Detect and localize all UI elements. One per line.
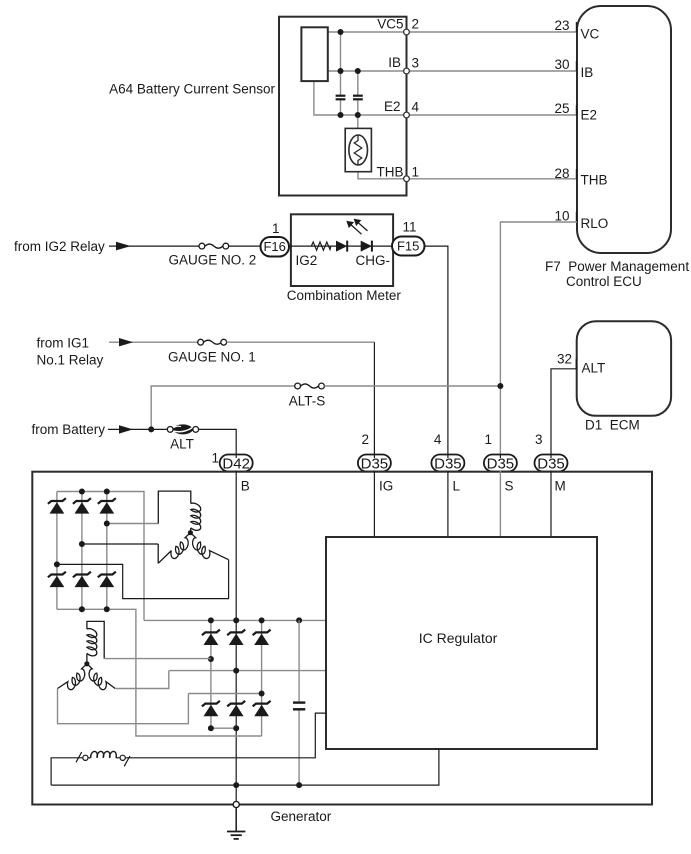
svg-text:VC5: VC5 bbox=[377, 16, 403, 31]
svg-text:GAUGE NO. 2: GAUGE NO. 2 bbox=[169, 253, 257, 268]
wire F15 to generator L terminal bbox=[425, 246, 448, 454]
pin THB (sensor pin 1) bbox=[404, 176, 410, 182]
svg-text:S: S bbox=[505, 479, 514, 494]
svg-text:D1 ECM: D1 ECM bbox=[585, 418, 640, 433]
connector F16 pin 1 bbox=[261, 237, 290, 257]
svg-text:VC: VC bbox=[581, 27, 600, 42]
fuse ALT (fusible link) bbox=[167, 425, 198, 434]
wire ground rail bbox=[51, 749, 439, 785]
pin E2 (sensor pin 4) bbox=[404, 112, 410, 118]
wire fuse GAUGE NO.1 to generator IG terminal bbox=[227, 341, 375, 343]
svg-text:25: 25 bbox=[554, 101, 569, 116]
svg-text:RLO: RLO bbox=[581, 216, 609, 231]
wire rectifier1 column 1 bbox=[56, 492, 58, 610]
wire from IG1 relay to fuse GAUGE NO.1 bbox=[109, 341, 198, 343]
fuse GAUGE NO. 1 bbox=[198, 339, 227, 345]
svg-text:F15: F15 bbox=[397, 239, 419, 254]
svg-text:F7 Power Management: F7 Power Management bbox=[545, 259, 689, 274]
diode D7 bbox=[202, 630, 220, 645]
wire capacitor C2 branch bbox=[357, 71, 359, 95]
diode D10 bbox=[202, 701, 220, 716]
svg-text:Control ECU: Control ECU bbox=[566, 274, 642, 289]
svg-text:IB: IB bbox=[581, 65, 594, 80]
wire L to IC regulator bbox=[447, 471, 449, 538]
wire ECM ALT to generator M terminal bbox=[551, 369, 577, 455]
current sensor element bbox=[301, 27, 327, 81]
wire E2 to ECU pin 25 bbox=[314, 81, 577, 115]
svg-text:IG: IG bbox=[379, 479, 393, 494]
wire phase2 tap col3 bbox=[188, 693, 261, 695]
LED arrows bbox=[347, 220, 367, 235]
svg-text:3: 3 bbox=[535, 432, 543, 447]
svg-text:IC Regulator: IC Regulator bbox=[419, 630, 498, 646]
diode D-meter1 bbox=[336, 241, 347, 252]
diode D4 bbox=[48, 572, 66, 587]
svg-text:1: 1 bbox=[484, 432, 492, 447]
pin 28 THB bbox=[575, 169, 577, 179]
wire L2b to rectifier2 col3 tap bbox=[58, 689, 189, 724]
diode D9 bbox=[253, 630, 271, 645]
wire rectifier2 top rail bbox=[144, 619, 326, 621]
wire B line (terminal B to ground) bbox=[235, 471, 237, 805]
A64 Battery Current Sensor box bbox=[279, 17, 407, 196]
svg-text:3: 3 bbox=[412, 55, 420, 70]
resistor meter bbox=[311, 242, 331, 250]
svg-text:ALT-S: ALT-S bbox=[289, 394, 326, 409]
svg-text:ALT: ALT bbox=[582, 361, 606, 376]
node VC5-C1 junction bbox=[338, 29, 344, 35]
svg-text:B: B bbox=[241, 479, 250, 494]
svg-text:Combination Meter: Combination Meter bbox=[287, 288, 402, 303]
diode D1 bbox=[48, 498, 66, 513]
svg-text:32: 32 bbox=[557, 352, 572, 367]
pin 10 RLO bbox=[575, 212, 577, 222]
diode D6 bbox=[98, 572, 116, 587]
svg-text:THB: THB bbox=[377, 164, 404, 179]
node IB-C1 junction bbox=[338, 68, 344, 74]
svg-text:1: 1 bbox=[412, 164, 420, 179]
node rectifier2 dots bbox=[208, 617, 302, 731]
pin VC5 (sensor pin 2) bbox=[404, 29, 410, 35]
pin 30 IB bbox=[575, 61, 577, 71]
diode D11 bbox=[227, 701, 245, 716]
svg-text:No.1 Relay: No.1 Relay bbox=[37, 353, 104, 368]
wire from battery to fuse ALT bbox=[108, 428, 168, 430]
inductor L2c right coil bbox=[87, 664, 115, 690]
wire rectifier1 column 3 bbox=[106, 492, 108, 610]
svg-text:GAUGE NO. 1: GAUGE NO. 1 bbox=[168, 350, 256, 365]
capacitor C1 bbox=[336, 96, 346, 100]
svg-text:IG2: IG2 bbox=[296, 253, 318, 268]
diode D3 bbox=[98, 498, 116, 513]
node E2-C2 junction bbox=[355, 112, 361, 118]
node E2-C1 junction bbox=[338, 112, 344, 118]
node IB-C2 junction bbox=[355, 68, 361, 74]
node winding2 neutral bbox=[84, 661, 89, 666]
svg-text:from IG1: from IG1 bbox=[37, 336, 90, 351]
svg-text:L: L bbox=[453, 479, 461, 494]
fuse GAUGE NO. 2 bbox=[199, 243, 229, 249]
node winding1 neutral bbox=[188, 530, 193, 535]
wire phase2 tap to regulator P bbox=[169, 670, 326, 672]
wire IB to ECU pin 30 bbox=[328, 70, 577, 72]
wire phase tap W to winding path bbox=[57, 560, 229, 599]
op ECM box D1 bbox=[577, 321, 671, 416]
node ALT-S junction bbox=[497, 383, 503, 389]
svg-text:A64 Battery Current Sensor: A64 Battery Current Sensor bbox=[109, 82, 275, 97]
diode D8 bbox=[227, 630, 245, 645]
thermistor THB element bbox=[345, 128, 371, 171]
wire stubs through connector ovals bbox=[236, 455, 551, 459]
diode D12 bbox=[253, 701, 271, 716]
svg-text:28: 28 bbox=[554, 166, 569, 181]
svg-text:from IG2 Relay: from IG2 Relay bbox=[14, 239, 105, 254]
rotor field winding L3 with brushes bbox=[51, 713, 326, 785]
svg-text:10: 10 bbox=[554, 209, 569, 224]
svg-text:2: 2 bbox=[361, 432, 369, 447]
wire rectifier1 top rail to mid rail bbox=[57, 492, 144, 621]
svg-text:M: M bbox=[555, 479, 566, 494]
wire rectifier1 column 2 bbox=[81, 492, 83, 610]
wire IG to IC regulator bbox=[373, 471, 375, 538]
svg-text:11: 11 bbox=[402, 220, 416, 235]
wire battery junction to fuse ALT-S bbox=[151, 386, 295, 429]
arrow from Battery bbox=[119, 425, 133, 433]
svg-text:THB: THB bbox=[581, 173, 608, 188]
inductor L1a vertical coil bbox=[158, 491, 200, 533]
node rectifier1 dots bbox=[54, 489, 110, 613]
wire fuse ALT-S to S line bbox=[324, 385, 500, 387]
generator box bbox=[32, 472, 652, 805]
wire from IG2 relay to fuse GAUGE NO.2 bbox=[109, 245, 199, 247]
wire inside combination meter bbox=[289, 245, 392, 247]
svg-text:ALT: ALT bbox=[170, 437, 194, 452]
svg-text:F16: F16 bbox=[263, 239, 285, 254]
wire L2a to rectifier2 col1 tap bbox=[104, 658, 211, 660]
capacitor C2 bbox=[353, 96, 363, 100]
pin 32 ALT bbox=[575, 359, 577, 369]
connector F15 pin 11 bbox=[392, 237, 425, 256]
diode D2 bbox=[73, 498, 91, 513]
svg-text:CHG-: CHG- bbox=[356, 253, 391, 268]
node C3-ground rail junction bbox=[296, 782, 302, 788]
node B-ground rail junction bbox=[233, 782, 239, 788]
fuse ALT-S bbox=[295, 383, 325, 389]
svg-text:E2: E2 bbox=[581, 108, 598, 123]
ground symbol bbox=[233, 801, 239, 807]
svg-text:1: 1 bbox=[211, 451, 219, 466]
wire M to IC regulator bbox=[550, 471, 552, 538]
wire rectifier2 bottom rail bbox=[211, 727, 236, 729]
capacitor C3 bbox=[293, 703, 305, 710]
inductor L2b left coil bbox=[58, 664, 87, 690]
node battery/ALT-S junction bbox=[148, 426, 154, 432]
wire rectifier1 bottom rail to diode D9 anode bbox=[57, 609, 262, 736]
svg-text:4: 4 bbox=[412, 99, 420, 114]
op ECU box U-F7 bbox=[577, 6, 671, 253]
wire fuse ALT to generator B terminal bbox=[199, 429, 237, 454]
pin IB (sensor pin 3) bbox=[404, 68, 410, 74]
svg-text:Generator: Generator bbox=[271, 809, 332, 824]
wire capacitor C1 branch bbox=[340, 32, 342, 95]
op IC Regulator box bbox=[326, 537, 597, 749]
svg-text:1: 1 bbox=[272, 221, 280, 236]
wire rectifier2 column 1 bbox=[210, 620, 212, 728]
wire S to IC regulator bbox=[499, 471, 501, 538]
inductor L2a vertical coil bbox=[87, 621, 104, 663]
combination meter box bbox=[291, 214, 393, 286]
wire L2c to rectifier2 col2 tap bbox=[115, 671, 169, 689]
wire ECU RLO to generator S terminal bbox=[500, 222, 577, 455]
arrow from IG2 Relay bbox=[116, 242, 131, 251]
svg-text:30: 30 bbox=[554, 57, 569, 72]
wire phase tap V to winding path bbox=[82, 543, 158, 545]
LED CHG- indicator diode bbox=[361, 241, 372, 252]
svg-text:2: 2 bbox=[412, 16, 420, 31]
wire VC5 to ECU pin 23 bbox=[328, 31, 577, 33]
pin 23 VC bbox=[575, 22, 577, 32]
wire fuse to F16 bbox=[229, 245, 262, 247]
wire THB to ECU pin 28 bbox=[358, 172, 577, 179]
svg-text:4: 4 bbox=[434, 432, 442, 447]
pin 25 E2 bbox=[575, 105, 577, 115]
svg-text:E2: E2 bbox=[384, 99, 401, 114]
svg-text:23: 23 bbox=[554, 18, 569, 33]
arrow from IG1 relay bbox=[119, 338, 133, 346]
svg-text:IB: IB bbox=[388, 55, 401, 70]
inductor L1c right coil bbox=[190, 533, 228, 560]
diode D5 bbox=[73, 572, 91, 587]
wire rectifier2 column 3 bbox=[261, 620, 263, 736]
inductor L1b left coil bbox=[158, 533, 190, 564]
wire phase tap U to winding path bbox=[107, 523, 159, 525]
svg-text:from Battery: from Battery bbox=[32, 422, 106, 437]
wire capacitor C3 branch bbox=[298, 620, 300, 785]
